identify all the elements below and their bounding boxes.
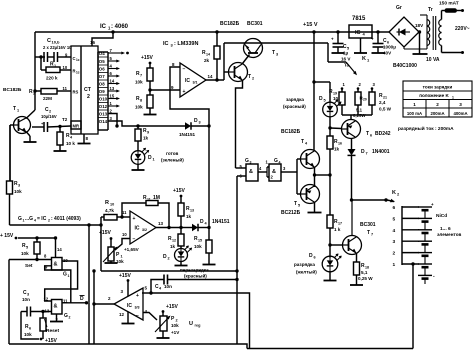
svg-text:3: 3 <box>393 239 396 245</box>
svg-text:100 mA: 100 mA <box>407 111 422 116</box>
svg-text:12: 12 <box>119 312 125 317</box>
ground D6 <box>329 271 331 281</box>
svg-text:10,b: 10,b <box>52 40 61 45</box>
wire T2 emitter down <box>236 81 243 169</box>
svg-text:+15V: +15V <box>173 188 185 194</box>
svg-text:5: 5 <box>298 204 300 208</box>
svg-text:Ta: Ta <box>344 63 349 68</box>
svg-text:400mA: 400mA <box>453 111 467 116</box>
svg-text:10n: 10n <box>22 297 30 302</box>
wire primary bottom <box>441 46 443 53</box>
svg-text:200mA: 200mA <box>430 111 444 116</box>
wire Qbar up <box>88 225 90 303</box>
svg-text:BC182Б: BC182Б <box>3 87 22 93</box>
svg-text:+ 15V: + 15V <box>0 233 14 239</box>
wire R10 left vertical <box>100 217 102 271</box>
svg-text:= IC: = IC <box>37 216 47 222</box>
ground P1 <box>110 261 112 263</box>
wire O14 to D3 <box>108 121 185 126</box>
ground D2 <box>180 262 182 266</box>
svg-text:2: 2 <box>49 110 51 114</box>
svg-text:6: 6 <box>314 256 316 260</box>
svg-text:T: T <box>272 50 275 56</box>
wire IC1 pin16 to rail <box>92 32 113 46</box>
svg-text:1k: 1k <box>334 147 340 152</box>
svg-text:T: T <box>294 201 297 207</box>
svg-text:B40C1000: B40C1000 <box>393 63 417 69</box>
svg-text:9: 9 <box>147 131 149 135</box>
ground T1 emitter <box>26 132 30 137</box>
svg-text:+: + <box>331 37 334 42</box>
svg-text:O12: O12 <box>99 104 108 109</box>
svg-text:10: 10 <box>333 96 339 101</box>
svg-text:16 V: 16 V <box>341 57 351 62</box>
svg-text:D: D <box>200 219 204 225</box>
svg-text:+: + <box>371 37 374 42</box>
svg-text:: 4011 (4093): : 4011 (4093) <box>51 216 81 222</box>
svg-text:2: 2 <box>176 319 178 323</box>
wire G3 out <box>258 171 267 173</box>
svg-text:10k: 10k <box>24 332 32 337</box>
svg-text:2: 2 <box>168 257 170 261</box>
wire bottom rail left <box>9 344 247 349</box>
svg-text:O6: O6 <box>99 67 105 72</box>
wire K1 resistor bus <box>341 105 343 115</box>
svg-text:BC301: BC301 <box>360 222 376 228</box>
svg-text:10 VA: 10 VA <box>426 57 440 63</box>
transistor T5 <box>301 185 320 204</box>
svg-text:15: 15 <box>110 93 115 98</box>
node R2 <box>33 89 36 92</box>
svg-text:O7: O7 <box>99 74 105 79</box>
wire out up to T2 <box>223 43 225 80</box>
svg-text:K: K <box>362 56 366 62</box>
wire long to battery return <box>151 293 250 349</box>
wire node to R16 <box>315 174 331 176</box>
op-amp IC3/1 <box>180 63 206 97</box>
wire +15V down to T4 <box>313 32 315 150</box>
wire inner vertical <box>40 57 42 70</box>
svg-text:13: 13 <box>110 86 115 91</box>
svg-text:IC: IC <box>135 226 140 232</box>
svg-text:10k: 10k <box>135 105 143 110</box>
svg-text:T: T <box>248 74 251 80</box>
svg-text:3/1: 3/1 <box>193 81 198 85</box>
svg-text:T: T <box>301 139 304 145</box>
svg-text:12: 12 <box>44 297 49 302</box>
svg-text:3: 3 <box>276 53 278 57</box>
svg-text:10k: 10k <box>194 244 202 249</box>
ground R8 <box>149 108 151 115</box>
transistor T4 <box>301 150 320 169</box>
svg-text:5,1: 5,1 <box>356 108 363 113</box>
svg-text:: 4060: : 4060 <box>111 24 129 30</box>
svg-text:T: T <box>367 230 370 236</box>
node R4 <box>58 125 61 128</box>
wire D7 to K2 <box>351 156 353 201</box>
led D1 green <box>137 141 139 151</box>
svg-text:BC212Б: BC212Б <box>281 210 301 216</box>
svg-text:разрядка: разрядка <box>294 262 315 267</box>
svg-text:12: 12 <box>172 239 176 243</box>
svg-text:10n: 10n <box>164 284 172 289</box>
diode D7 1N4001 <box>351 139 353 150</box>
svg-text:1µ: 1µ <box>343 51 349 56</box>
ground bridge right <box>418 30 421 33</box>
svg-text:IC: IC <box>127 303 132 309</box>
svg-text:21: 21 <box>383 96 387 100</box>
svg-text:1N4151: 1N4151 <box>212 219 230 225</box>
wire secondary bottom <box>404 48 427 50</box>
svg-text:NiCd: NiCd <box>436 213 447 219</box>
svg-text:+: + <box>183 89 186 95</box>
svg-text:готов: готов <box>166 151 179 156</box>
svg-text:10: 10 <box>63 65 68 70</box>
svg-text:D: D <box>163 254 167 260</box>
svg-text:+15 V: +15 V <box>303 22 318 28</box>
svg-text:3: 3 <box>27 293 29 297</box>
wire T3 emitter to K1 <box>327 43 329 62</box>
pot P2 10k <box>162 312 164 317</box>
svg-text:разрядный ток : 200mA: разрядный ток : 200mA <box>398 125 454 132</box>
svg-text:G: G <box>274 158 278 164</box>
svg-text:зарядка: зарядка <box>286 97 304 102</box>
svg-text:10k: 10k <box>14 189 22 194</box>
wire G3 in6 <box>237 175 246 177</box>
ground IC3/3 <box>127 312 129 324</box>
svg-text:+15V: +15V <box>141 55 153 61</box>
wire G2 out Qbar <box>62 302 88 304</box>
wire O13 down <box>108 114 117 127</box>
svg-text:+15V: +15V <box>99 230 111 236</box>
wire G2 down <box>88 303 90 344</box>
svg-text:−: − <box>136 313 139 319</box>
wire D5 to base node <box>329 117 331 129</box>
ground R15 <box>208 253 210 265</box>
svg-text:2: 2 <box>393 251 396 257</box>
wire T3 emitter collector line <box>224 42 328 44</box>
svg-text:2: 2 <box>252 77 254 81</box>
svg-text:2 x 22µ/16V 10: 2 x 22µ/16V 10 <box>43 45 72 50</box>
svg-text:7: 7 <box>371 233 373 237</box>
svg-text:2: 2 <box>69 316 71 320</box>
svg-text:22M: 22M <box>43 96 52 101</box>
svg-text:18V: 18V <box>415 23 424 28</box>
winding secondary <box>426 15 428 49</box>
svg-text:11: 11 <box>63 86 68 91</box>
svg-text:14: 14 <box>110 78 115 83</box>
svg-text:IC: IC <box>100 24 107 30</box>
svg-text:&: & <box>249 169 253 175</box>
wire T1 collector <box>26 110 35 119</box>
node R7 R8 <box>148 88 151 91</box>
svg-text:5: 5 <box>393 216 396 222</box>
svg-text:+: + <box>133 216 136 222</box>
svg-text:10 k: 10 k <box>66 141 75 146</box>
wire D5 feed <box>314 81 330 83</box>
svg-text:IC: IC <box>355 30 361 36</box>
ground R18 <box>356 275 358 285</box>
wire D4 node down R15 <box>208 126 210 228</box>
svg-text:7: 7 <box>366 152 368 156</box>
svg-text:~: ~ <box>418 29 421 34</box>
ground D1 <box>137 165 139 171</box>
svg-text:7: 7 <box>140 74 142 78</box>
svg-text:10k: 10k <box>135 80 143 85</box>
svg-text:40V: 40V <box>383 51 392 56</box>
svg-text:3/3: 3/3 <box>135 306 140 310</box>
svg-text:14: 14 <box>208 74 214 79</box>
svg-text:D: D <box>319 96 323 102</box>
svg-text:IC: IC <box>163 41 169 47</box>
svg-text:C: C <box>47 38 51 44</box>
capacitor C4 10n <box>151 280 164 294</box>
svg-text:3: 3 <box>18 184 20 188</box>
svg-text:G: G <box>245 158 249 164</box>
svg-text:1N4151: 1N4151 <box>179 132 196 137</box>
svg-text:D: D <box>148 155 152 161</box>
svg-text:2: 2 <box>87 94 90 100</box>
wire IC3/2 out <box>156 227 181 229</box>
svg-text:2,4: 2,4 <box>379 100 386 105</box>
svg-text:0,25 W: 0,25 W <box>358 276 373 281</box>
svg-text:T: T <box>366 131 369 137</box>
svg-text:1k: 1k <box>170 244 176 249</box>
wire G1 pin9 cross <box>45 266 71 303</box>
wire sense branch down <box>93 271 95 304</box>
op-amp IC3/2 <box>130 211 156 244</box>
svg-text:K: K <box>392 190 396 196</box>
svg-text:10k: 10k <box>171 323 179 328</box>
capacitor C5 1u <box>336 30 339 33</box>
svg-text:3/2: 3/2 <box>142 228 147 232</box>
svg-text:+15V: +15V <box>119 273 131 279</box>
core <box>432 16 434 50</box>
node D4 out <box>207 226 210 229</box>
wire battery return <box>411 262 414 265</box>
svg-text:6: 6 <box>370 134 372 138</box>
svg-text:10k: 10k <box>21 251 29 256</box>
wire T2 collector to T3 <box>243 55 250 64</box>
wire T4 collector <box>314 150 316 152</box>
svg-text:O10: O10 <box>99 97 108 102</box>
svg-text:5: 5 <box>26 246 28 250</box>
svg-text:(красный): (красный) <box>184 273 207 279</box>
wire G3 in5 <box>236 167 247 169</box>
svg-text:4: 4 <box>34 219 36 223</box>
wire R3 row to comparator <box>10 224 102 226</box>
svg-text:+: + <box>136 293 139 299</box>
svg-text:(зеленый): (зеленый) <box>161 157 184 163</box>
node D3 <box>207 124 210 127</box>
svg-text:: LM339N: : LM339N <box>174 41 198 47</box>
svg-text:13: 13 <box>190 209 194 213</box>
svg-text:6: 6 <box>29 327 31 331</box>
svg-text:3: 3 <box>199 121 201 125</box>
svg-text:2: 2 <box>436 102 439 107</box>
svg-text:15: 15 <box>198 239 202 243</box>
capacitor C6 1000u <box>376 30 379 33</box>
op-amp IC3/3 <box>114 288 143 320</box>
wire Set line <box>9 259 52 261</box>
ground IC1 pin8 <box>83 134 85 143</box>
svg-text:R: R <box>105 200 109 206</box>
svg-text:1k: 1k <box>143 136 149 141</box>
table charge currents <box>403 81 472 117</box>
svg-text:Tr: Tr <box>428 7 433 13</box>
wire T4 T5 base bar <box>296 159 298 194</box>
svg-text:+1,65V: +1,65V <box>124 247 140 252</box>
svg-text:16: 16 <box>90 40 96 45</box>
svg-text:3: 3 <box>459 102 462 107</box>
wire T7 base <box>330 244 343 246</box>
svg-text:16: 16 <box>338 142 342 146</box>
svg-text:O13: O13 <box>99 112 108 117</box>
wire G1 pin14 <box>55 238 57 258</box>
resistor R4 10k <box>57 132 63 145</box>
svg-text:2k: 2k <box>204 58 210 63</box>
battery cells NiCd <box>418 206 432 208</box>
svg-text:O8: O8 <box>99 82 105 87</box>
svg-text:1: 1 <box>452 95 454 99</box>
wire R16 to R17 <box>329 175 331 215</box>
svg-text:+: + <box>431 202 434 207</box>
svg-text:1: 1 <box>17 109 19 113</box>
svg-text:reg: reg <box>195 324 202 328</box>
resistor R18 5.1 <box>356 254 358 263</box>
svg-text:+15V: +15V <box>166 304 178 310</box>
pot P1 10k <box>110 239 112 248</box>
wire T7 collector <box>351 200 353 236</box>
wire C3 left to +15V <box>21 312 39 340</box>
svg-text:18: 18 <box>365 266 369 270</box>
wire T4 emitter to node <box>314 167 316 188</box>
svg-text:элементов: элементов <box>437 232 461 237</box>
wire +15V top rail <box>35 31 389 33</box>
svg-text:220 k: 220 k <box>46 76 58 81</box>
svg-text:2: 2 <box>48 219 50 223</box>
svg-text:O5: O5 <box>99 59 105 64</box>
svg-text:токи зарядки: токи зарядки <box>423 85 453 90</box>
svg-text:14: 14 <box>57 247 62 252</box>
svg-text:U: U <box>189 321 193 327</box>
ic IC1 4060 box <box>71 46 98 134</box>
svg-text:BC182Б: BC182Б <box>220 21 240 27</box>
svg-text:14: 14 <box>206 53 210 57</box>
svg-text:17: 17 <box>338 222 342 226</box>
svg-text:1000µ: 1000µ <box>383 45 396 50</box>
svg-text:Set: Set <box>25 263 33 269</box>
svg-text:(красный): (красный) <box>283 103 306 109</box>
svg-text:D: D <box>194 118 198 124</box>
wire secondary top <box>420 14 427 16</box>
svg-text:D: D <box>309 253 313 259</box>
wire G1 out to G2 <box>45 261 78 301</box>
wire set feed <box>18 237 56 239</box>
switch K2 contacts <box>401 206 403 265</box>
wire G4 out <box>281 171 297 173</box>
svg-text:0,5 W: 0,5 W <box>379 107 392 112</box>
ground R4 <box>59 145 61 151</box>
svg-text:1k: 1k <box>186 214 192 219</box>
svg-text:−: − <box>133 237 136 243</box>
svg-text:G: G <box>64 313 68 319</box>
wire P1 wiper to -in <box>115 239 130 251</box>
svg-text:O4: O4 <box>99 51 105 56</box>
wire -in to P2 <box>143 313 157 321</box>
svg-text:T2: T2 <box>62 117 68 122</box>
svg-text:6: 6 <box>393 205 396 211</box>
svg-text:1N4001: 1N4001 <box>372 149 390 155</box>
svg-text:T: T <box>13 106 16 112</box>
svg-text:BC301: BC301 <box>247 21 263 27</box>
svg-text:1 k: 1 k <box>334 227 341 232</box>
wire +in pin5 <box>142 292 151 294</box>
node +15V drop <box>312 30 315 33</box>
svg-text:−: − <box>183 67 186 73</box>
svg-text:1: 1 <box>121 255 123 259</box>
svg-text:10µ/16V: 10µ/16V <box>41 114 57 119</box>
svg-text:1: 1 <box>393 262 396 268</box>
svg-text:20: 20 <box>363 98 367 102</box>
wire bottom rail right <box>247 348 413 350</box>
svg-text:&: & <box>54 304 58 310</box>
wire -input loop <box>170 67 209 126</box>
svg-text:D: D <box>80 296 84 302</box>
node R9 <box>136 124 139 127</box>
wire T2 base <box>224 71 229 73</box>
svg-text:BC182Б: BC182Б <box>281 129 301 135</box>
svg-text:Reset: Reset <box>46 328 59 334</box>
svg-text:D: D <box>361 149 365 155</box>
svg-text:IC: IC <box>185 78 190 84</box>
svg-text:8: 8 <box>140 99 142 103</box>
wire +input <box>150 89 180 91</box>
wire left vertical from rail <box>34 32 36 110</box>
svg-text:13: 13 <box>158 221 164 226</box>
ground IC4 <box>360 38 362 53</box>
ground T5 collector <box>314 202 316 213</box>
svg-text:1c: 1c <box>76 71 80 75</box>
winding primary <box>439 20 442 46</box>
svg-text:G: G <box>18 216 22 222</box>
svg-text:10: 10 <box>110 203 114 207</box>
svg-text:CT: CT <box>84 87 92 93</box>
svg-text:BD242: BD242 <box>375 131 391 137</box>
svg-text:1c: 1c <box>76 58 80 62</box>
svg-text:5,1: 5,1 <box>361 270 368 275</box>
svg-text:10: 10 <box>122 232 127 237</box>
svg-text:перезарядка: перезарядка <box>180 268 209 273</box>
node caps <box>39 55 42 58</box>
svg-text:7815: 7815 <box>352 16 366 22</box>
svg-text:G: G <box>63 272 67 278</box>
ground P2 <box>162 331 164 338</box>
svg-text:MR: MR <box>73 124 80 129</box>
svg-text:19: 19 <box>333 92 337 96</box>
svg-text:1: 1 <box>413 102 416 107</box>
svg-text:положение K: положение K <box>419 93 449 98</box>
wire IC3/1 out <box>206 79 224 81</box>
svg-text:150 mAT: 150 mAT <box>439 1 459 7</box>
svg-text:&: & <box>54 262 58 268</box>
svg-text:(желтый): (желтый) <box>296 269 317 275</box>
wire T1 base to R3 <box>10 124 14 126</box>
svg-text:O9: O9 <box>99 89 105 94</box>
svg-text:5: 5 <box>324 99 326 103</box>
svg-text:11: 11 <box>122 210 127 215</box>
svg-text:+15V: +15V <box>45 338 57 344</box>
